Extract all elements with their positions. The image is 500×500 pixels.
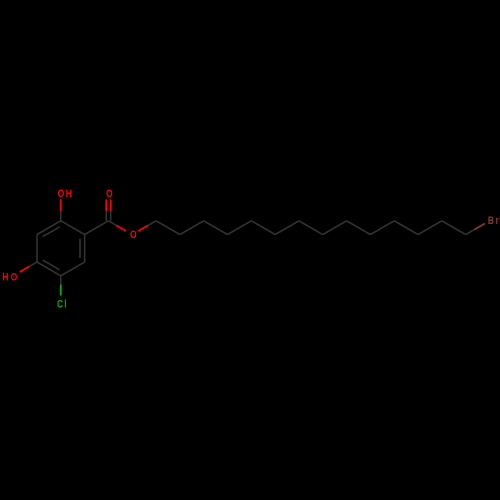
- bond C1-O (phenol OH): [60, 199, 62, 211]
- bond O-C8 (ester to chain): [138, 225, 148, 231]
- bond chain C9-C10: [180, 221, 204, 235]
- bond chain C17-C18: [370, 221, 394, 235]
- bond chain C16-C17: [347, 221, 371, 235]
- svg-text:H: H: [66, 188, 72, 200]
- bond chain C14-C15: [299, 221, 323, 235]
- bond chain C11-C12: [228, 221, 252, 235]
- bond C5-O (phenol HO): [20, 267, 30, 273]
- double bond inner line C4=C5: [43, 260, 60, 270]
- bond C1-C2 (ring): [61, 221, 85, 235]
- double bond inner line C6=C1: [43, 227, 60, 237]
- svg-text:H: H: [2, 272, 8, 284]
- bond C4-Cl: [60, 285, 62, 296]
- svg-text:O: O: [106, 188, 113, 200]
- bond C21-Br: [474, 223, 485, 229]
- bond C2-C3 (ring): [84, 235, 86, 262]
- bond chain C8-C9: [156, 221, 180, 235]
- bond chain C18-C19: [394, 221, 418, 235]
- svg-text:C: C: [57, 299, 63, 311]
- bond chain C15-C16: [323, 221, 347, 235]
- bond chain C12-C13: [251, 221, 275, 235]
- svg-text:O: O: [130, 229, 137, 241]
- svg-text:O: O: [58, 188, 65, 200]
- double bond inner line C2=C3: [79, 239, 81, 258]
- svg-text:O: O: [11, 272, 18, 284]
- bond C4-C5 (ring): [37, 262, 61, 276]
- double bond C7=O (carbonyl): [105, 199, 107, 211]
- bond chain C19-C20: [418, 221, 442, 235]
- svg-text:B: B: [488, 215, 494, 227]
- bond C5-C6 (ring): [36, 235, 38, 262]
- svg-text:r: r: [496, 215, 499, 227]
- svg-text:l: l: [64, 299, 67, 311]
- bond C7-O (ester, left half): [116, 225, 126, 231]
- bond C2-C7 (to carbonyl): [85, 221, 109, 235]
- bond chain C13-C14: [275, 221, 299, 235]
- bond chain C20-C21: [442, 221, 466, 235]
- bond C3-C4 (ring): [61, 262, 85, 276]
- bond chain C10-C11: [204, 221, 228, 235]
- bond C6-C1 (ring): [37, 221, 61, 235]
